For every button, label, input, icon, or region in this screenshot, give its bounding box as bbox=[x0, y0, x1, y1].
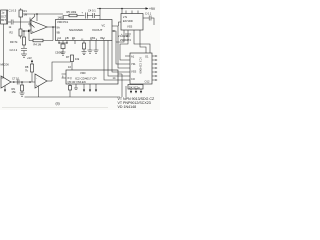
svg-text:2SD9474: 2SD9474 bbox=[120, 38, 131, 42]
svg-text:DK 9C2a: DK 9C2a bbox=[129, 85, 140, 89]
svg-text:2 N: 2 N bbox=[123, 15, 127, 19]
svg-text:R8: R8 bbox=[25, 65, 29, 69]
svg-text:C1 0.5: C1 0.5 bbox=[9, 9, 17, 13]
svg-text:R4 1M: R4 1M bbox=[34, 43, 42, 47]
svg-text:Q5 CR VSS EN: Q5 CR VSS EN bbox=[68, 80, 86, 84]
svg-text:VSS: VSS bbox=[127, 25, 132, 29]
svg-text:A1: A1 bbox=[131, 55, 135, 59]
svg-text:9B: 9B bbox=[57, 31, 60, 35]
svg-text:6 Q: 6 Q bbox=[68, 76, 72, 80]
svg-text:C2 2.2: C2 2.2 bbox=[10, 48, 18, 52]
svg-text:+9V: +9V bbox=[149, 7, 156, 11]
svg-text:R7: R7 bbox=[66, 55, 70, 59]
svg-text:9A: 9A bbox=[57, 26, 60, 30]
svg-text:O12: O12 bbox=[145, 80, 150, 84]
svg-text:VD 1N4148: VD 1N4148 bbox=[118, 105, 137, 109]
svg-text:VSS: VSS bbox=[131, 70, 136, 74]
svg-text:2 104/10: 2 104/10 bbox=[118, 34, 129, 38]
svg-text:C4 0.1: C4 0.1 bbox=[88, 9, 96, 13]
svg-text:C5/503: C5/503 bbox=[55, 51, 64, 55]
svg-text:IC3 CD4069: IC3 CD4069 bbox=[139, 58, 143, 75]
svg-text:O1: O1 bbox=[145, 55, 149, 59]
svg-text:10k: 10k bbox=[75, 57, 80, 61]
svg-text:-: - bbox=[36, 78, 37, 81]
svg-text:1M: 1M bbox=[24, 13, 28, 17]
svg-text:R5 100k: R5 100k bbox=[67, 10, 77, 14]
svg-text:CO: CO bbox=[131, 77, 135, 81]
svg-text:VDD PC1: VDD PC1 bbox=[57, 20, 69, 24]
svg-text:B1T: B1T bbox=[1, 18, 6, 22]
svg-text:R3≈7k: R3≈7k bbox=[10, 40, 18, 44]
svg-text:VC: VC bbox=[102, 24, 106, 28]
svg-text:15k: 15k bbox=[12, 90, 17, 94]
svg-text:DCT: DCT bbox=[1, 14, 7, 18]
svg-text:IC2 CD4017 CP: IC2 CD4017 CP bbox=[75, 77, 97, 81]
svg-text:R1: R1 bbox=[24, 9, 28, 13]
svg-text:C 0.1: C 0.1 bbox=[145, 12, 152, 16]
svg-text:C7 10: C7 10 bbox=[12, 77, 19, 81]
svg-text:Y01: Y01 bbox=[131, 62, 136, 66]
svg-text:14|13: 14|13 bbox=[58, 16, 65, 20]
svg-text:MICOK: MICOK bbox=[1, 63, 10, 67]
svg-text:R2: R2 bbox=[10, 31, 14, 35]
svg-text:SG/CMHK: SG/CMHK bbox=[69, 28, 83, 32]
svg-text:+9V: +9V bbox=[27, 56, 32, 60]
svg-text:VDD: VDD bbox=[80, 71, 86, 75]
svg-text:EN VDD: EN VDD bbox=[123, 19, 133, 23]
svg-text:(a): (a) bbox=[56, 102, 60, 106]
svg-text:-: - bbox=[32, 24, 33, 27]
svg-text:VCOUT: VCOUT bbox=[92, 28, 103, 32]
